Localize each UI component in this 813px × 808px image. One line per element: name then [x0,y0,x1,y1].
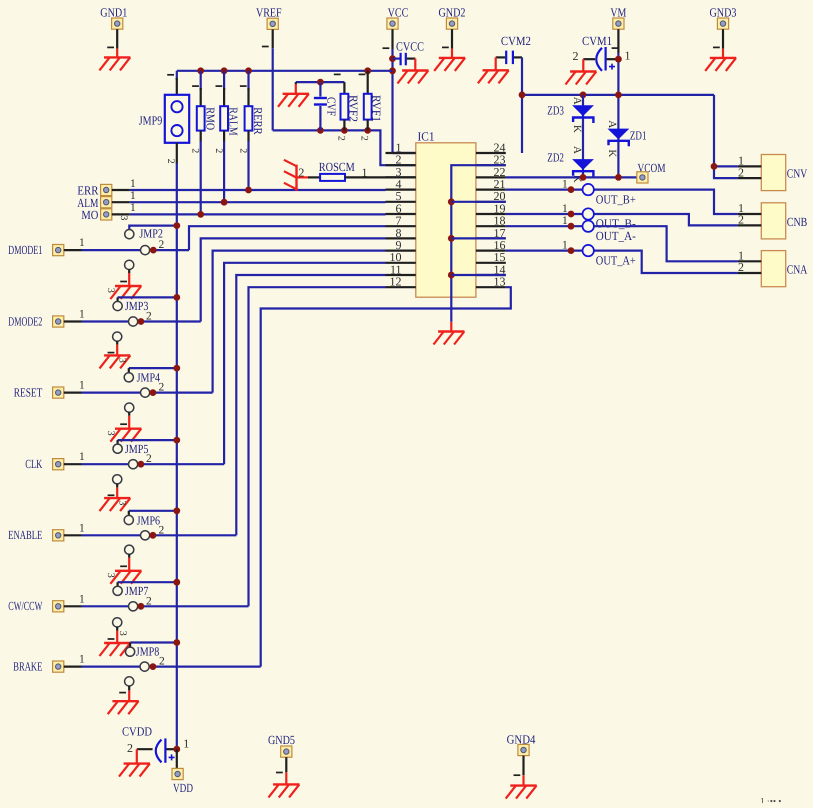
svg-text:DMODE1: DMODE1 [8,243,42,257]
wire CLK row [82,463,225,465]
svg-text:RVF1: RVF1 [370,95,384,122]
svg-text:2: 2 [335,136,346,141]
jumper JMP4 [100,332,181,397]
svg-text:RMO: RMO [203,107,217,130]
ground at ROSCM (rotated) [284,160,308,191]
wire IC1 pin10 to CLK [224,263,385,464]
svg-text:CNV: CNV [787,167,808,181]
svg-text:DMODE2: DMODE2 [8,314,42,328]
svg-text:OUT_B+: OUT_B+ [596,192,636,206]
svg-text:3: 3 [105,431,116,436]
wire ALM row [112,190,386,206]
wire RALM bottom to ALM row [223,141,225,202]
svg-text:1: 1 [79,380,85,392]
capacitor CVDD [122,725,189,763]
wire RESET row [64,380,85,393]
pad VM [613,18,624,29]
port GND3 [710,6,737,20]
resistor RMO [190,71,218,154]
svg-text:1: 1 [79,237,85,249]
resistor RALM [213,71,241,154]
wire GND net inside IC1 (pin23) [448,165,506,322]
ground at CVF top net [278,82,309,107]
port MO [81,208,98,222]
svg-text:CVF: CVF [325,97,339,116]
svg-text:2: 2 [190,148,201,153]
svg-text:15: 15 [494,250,506,264]
svg-text:2: 2 [573,49,579,63]
wire ENABLE row [64,522,85,535]
svg-text:GND2: GND2 [439,6,466,20]
spare jumper pin circle below JMP8 [125,677,134,691]
svg-text:1: 1 [79,654,85,666]
wire VM column [617,29,619,177]
svg-text:18: 18 [494,214,506,228]
node OUT_B- [583,208,636,230]
ground at CVM2 [478,57,509,83]
svg-text:2: 2 [738,165,744,179]
port ENABLE [8,528,42,542]
svg-text:12: 12 [390,275,402,289]
ground below spare pin [108,690,139,714]
svg-text:K: K [606,149,618,157]
svg-text:3: 3 [105,573,116,578]
svg-text:CVCC: CVCC [396,40,424,54]
jumper JMP3 [105,260,180,326]
svg-text:1: 1 [130,202,136,214]
pad BRAKE [53,661,64,672]
IC U1 body IC1 [416,130,476,298]
wire ENABLE row [82,534,237,536]
svg-text:2: 2 [738,213,744,227]
svg-text:VM: VM [610,6,626,20]
pad GND1 [112,18,123,29]
svg-text:JMP5: JMP5 [125,442,148,456]
svg-text:CNA: CNA [787,263,808,277]
svg-text:3: 3 [105,288,116,293]
svg-text:OUT_A+: OUT_A+ [596,253,636,267]
svg-text:ZD2: ZD2 [547,150,564,164]
port VREF [256,6,282,20]
svg-text:OUT_A-: OUT_A- [596,229,636,243]
jumper JMP2 [125,222,181,254]
port VM [610,6,626,20]
port VCC [388,6,409,20]
svg-text:CW/CCW: CW/CCW [8,599,42,613]
node OUT_A+ [583,245,636,267]
zener diode ZD3 [547,97,594,133]
IC1 pin numbers right [494,140,506,288]
zener diode ZD1 [606,120,646,157]
svg-text:CLK: CLK [25,457,42,471]
wire DMODE1 row [64,237,85,250]
pad GND5 [281,746,292,757]
svg-text:1: 1 [562,203,568,215]
port DMODE2 [8,314,42,328]
svg-text:JMP4: JMP4 [137,371,161,385]
svg-text:1: 1 [79,451,85,463]
svg-text:3: 3 [118,215,129,220]
wire VM rail [519,92,714,99]
svg-text:RVF2: RVF2 [346,95,360,122]
wire VREF down [262,29,273,130]
port VCOM [638,161,666,175]
node OUT_A- [583,221,636,243]
svg-text:K: K [571,125,583,133]
wire DMODE2 row [64,309,85,322]
wire DMODE2 row [82,320,201,322]
svg-text:VCC: VCC [388,6,409,20]
svg-text:2: 2 [237,148,248,153]
svg-text:24: 24 [494,140,506,154]
svg-text:19: 19 [494,201,506,215]
wire BRAKE row [64,654,85,667]
svg-text:1: 1 [79,593,85,605]
wire VDD stub [176,749,178,768]
ground GND2 [434,29,465,71]
svg-text:2: 2 [159,524,165,536]
wire VCOM row pin22 [506,174,637,181]
svg-text:GND1: GND1 [100,6,127,20]
wire OUT_A- net [506,215,738,261]
resistor RERR [237,71,265,154]
jumper JMP6 [100,475,181,540]
IC1 pin stubs right 24-13 [476,153,506,287]
svg-text:IC1: IC1 [418,130,435,144]
svg-text:2: 2 [359,136,370,141]
svg-text:A: A [606,120,618,128]
resistor RVF1 [359,71,384,141]
port VDD [173,781,193,795]
ground at CVM1 [566,59,597,84]
wire CVM2 to VM rail / pin24 riser [521,57,523,153]
port DMODE1 [8,243,42,257]
wire IC1 pin9 to RESET [213,251,386,393]
pad GND4 [518,744,529,755]
svg-text:2: 2 [159,656,165,668]
svg-text:MO: MO [81,208,98,222]
svg-text:VREF: VREF [256,6,282,20]
junction dots on VCC bus [197,67,371,74]
wire IC1 pin13 to BRAKE [261,287,511,666]
svg-text:3: 3 [117,358,128,363]
ground at CVDD [119,749,150,776]
ground below IC1 [434,322,465,345]
ground GND4 [506,756,537,799]
svg-text:2: 2 [213,148,224,153]
jumper JMP8 [100,618,181,671]
svg-text:1: 1 [183,737,189,751]
wire BRAKE row [82,665,261,667]
wire CVF RVF2 top net [296,79,345,86]
node OUT_B+ [583,184,636,206]
svg-text:1: 1 [79,522,85,534]
svg-text:GND5: GND5 [268,733,295,747]
wire CLK row [64,451,85,464]
svg-text:1 ·•• •: 1 ·•• • [760,796,781,803]
pad DMODE2 [53,316,64,327]
svg-text:3: 3 [117,500,128,505]
connector CNA [738,249,807,287]
svg-text:2: 2 [165,159,176,164]
svg-text:RESET: RESET [14,386,43,400]
resistor RVF2 [334,74,361,140]
svg-text:CVM1: CVM1 [582,34,612,48]
IC1 pin stubs left 1-12 [386,153,416,287]
ground GND5 [269,757,300,797]
svg-text:2: 2 [146,453,152,465]
svg-text:21: 21 [494,177,506,191]
pad VCOM [637,172,648,183]
ground GND1 [99,29,130,70]
svg-text:2: 2 [298,165,304,179]
port BRAKE [13,660,42,674]
port RESET [14,386,43,400]
pad ERR [101,184,112,195]
wire CW/CCW row [64,593,85,606]
svg-text:JMP8: JMP8 [136,644,160,658]
svg-text:ROSCM: ROSCM [319,160,355,174]
resistor ROSCM [298,160,415,181]
svg-text:BRAKE: BRAKE [13,660,42,674]
svg-text:2: 2 [159,382,165,394]
port GND5 [268,733,295,747]
svg-text:A: A [571,146,583,154]
svg-text:2: 2 [159,239,165,251]
pad MO [101,209,112,220]
IC1 pin numbers left [390,140,402,288]
svg-text:1: 1 [130,178,136,190]
svg-text:1: 1 [562,215,568,227]
svg-text:1: 1 [562,240,568,252]
junction CVDD-VDD [173,746,180,753]
wire OUT_A+ net [506,240,738,273]
pad VREF [267,18,278,29]
wire ZD3/ZD2 column [582,95,584,177]
wire DMODE1 row [82,249,190,251]
ground GND3 [705,29,736,71]
wire VCC top bus [177,70,393,72]
wire VCC column [383,29,416,153]
wire IC1 pin7 to DMODE1 [189,226,386,250]
connector CNB [738,201,807,239]
svg-text:1: 1 [362,165,368,179]
pad GND3 [717,18,728,29]
pad VCC [387,18,398,29]
ground at CVCC [398,59,429,84]
capacitor CVF [314,82,339,130]
pad RESET [53,387,64,398]
svg-text:2: 2 [127,741,133,755]
zener diode ZD2 [547,146,594,183]
svg-text:ZD3: ZD3 [547,103,564,117]
svg-text:ZD1: ZD1 [630,129,647,143]
wire OUT_B+ net [506,179,738,214]
svg-text:JMP3: JMP3 [125,299,148,313]
wire ERR row [112,178,386,194]
wire RESET row [82,392,213,394]
svg-text:1: 1 [625,49,631,63]
jumper JMP5 [105,403,180,469]
port ERR [77,184,99,198]
svg-text:VDD: VDD [173,781,193,795]
wire IC1 pin11 to ENABLE [236,275,385,535]
svg-text:1: 1 [562,179,568,191]
pad ALM [101,197,112,208]
junction CVM1-VM [615,56,622,63]
svg-text:JMP9: JMP9 [139,114,163,128]
port CW/CCW [8,599,42,613]
pad CW/CCW [53,601,64,612]
port ALM [77,196,98,210]
wire RERR bottom to ERR row [247,141,249,190]
jumper JMP9 [139,71,189,164]
wire VREF node row [273,127,416,165]
connector CNV [738,154,807,191]
svg-text:JMP7: JMP7 [125,584,148,598]
svg-text:CVM2: CVM2 [501,34,531,48]
svg-text:RALM: RALM [227,107,241,136]
capacitor CVM1 [573,34,631,71]
svg-text:CNB: CNB [787,215,808,229]
svg-text:A: A [571,97,583,105]
wire CW/CCW row [82,605,249,607]
wire IC1 pin12 to CWCCW [249,287,386,606]
capacitor CVM2 [496,34,531,64]
svg-text:16: 16 [494,238,506,252]
pad DMODE1 [53,245,64,256]
pad CLK [53,459,64,470]
pad ENABLE [53,530,64,541]
pad VDD [172,768,183,779]
wire VDD bus vertical [176,163,178,749]
svg-text:1: 1 [79,309,85,321]
svg-text:2: 2 [146,311,152,323]
jumper JMP7 [105,545,180,611]
port GND4 [507,733,536,747]
svg-text:1: 1 [130,190,136,202]
svg-text:ENABLE: ENABLE [8,528,42,542]
svg-text:RERR: RERR [251,107,265,135]
wire OUT_B- net [506,203,738,225]
wire RMO bottom to MO row [200,141,202,214]
svg-text:2: 2 [738,260,744,274]
port GND1 [100,6,127,20]
svg-text:3: 3 [117,631,128,636]
svg-text:2: 2 [146,595,152,607]
port GND2 [439,6,466,20]
svg-text:JMP6: JMP6 [137,513,161,527]
svg-text:13: 13 [494,275,506,289]
capacitor CVCC [393,40,425,66]
pad GND2 [446,18,457,29]
port CLK [25,457,42,471]
wire rail to CNV [711,95,738,178]
wire IC1 pin8 to DMODE2 [201,238,386,321]
wire MO row [112,202,386,218]
svg-text:22: 22 [494,165,506,179]
svg-text:CVDD: CVDD [122,725,152,739]
svg-text:GND3: GND3 [710,6,737,20]
